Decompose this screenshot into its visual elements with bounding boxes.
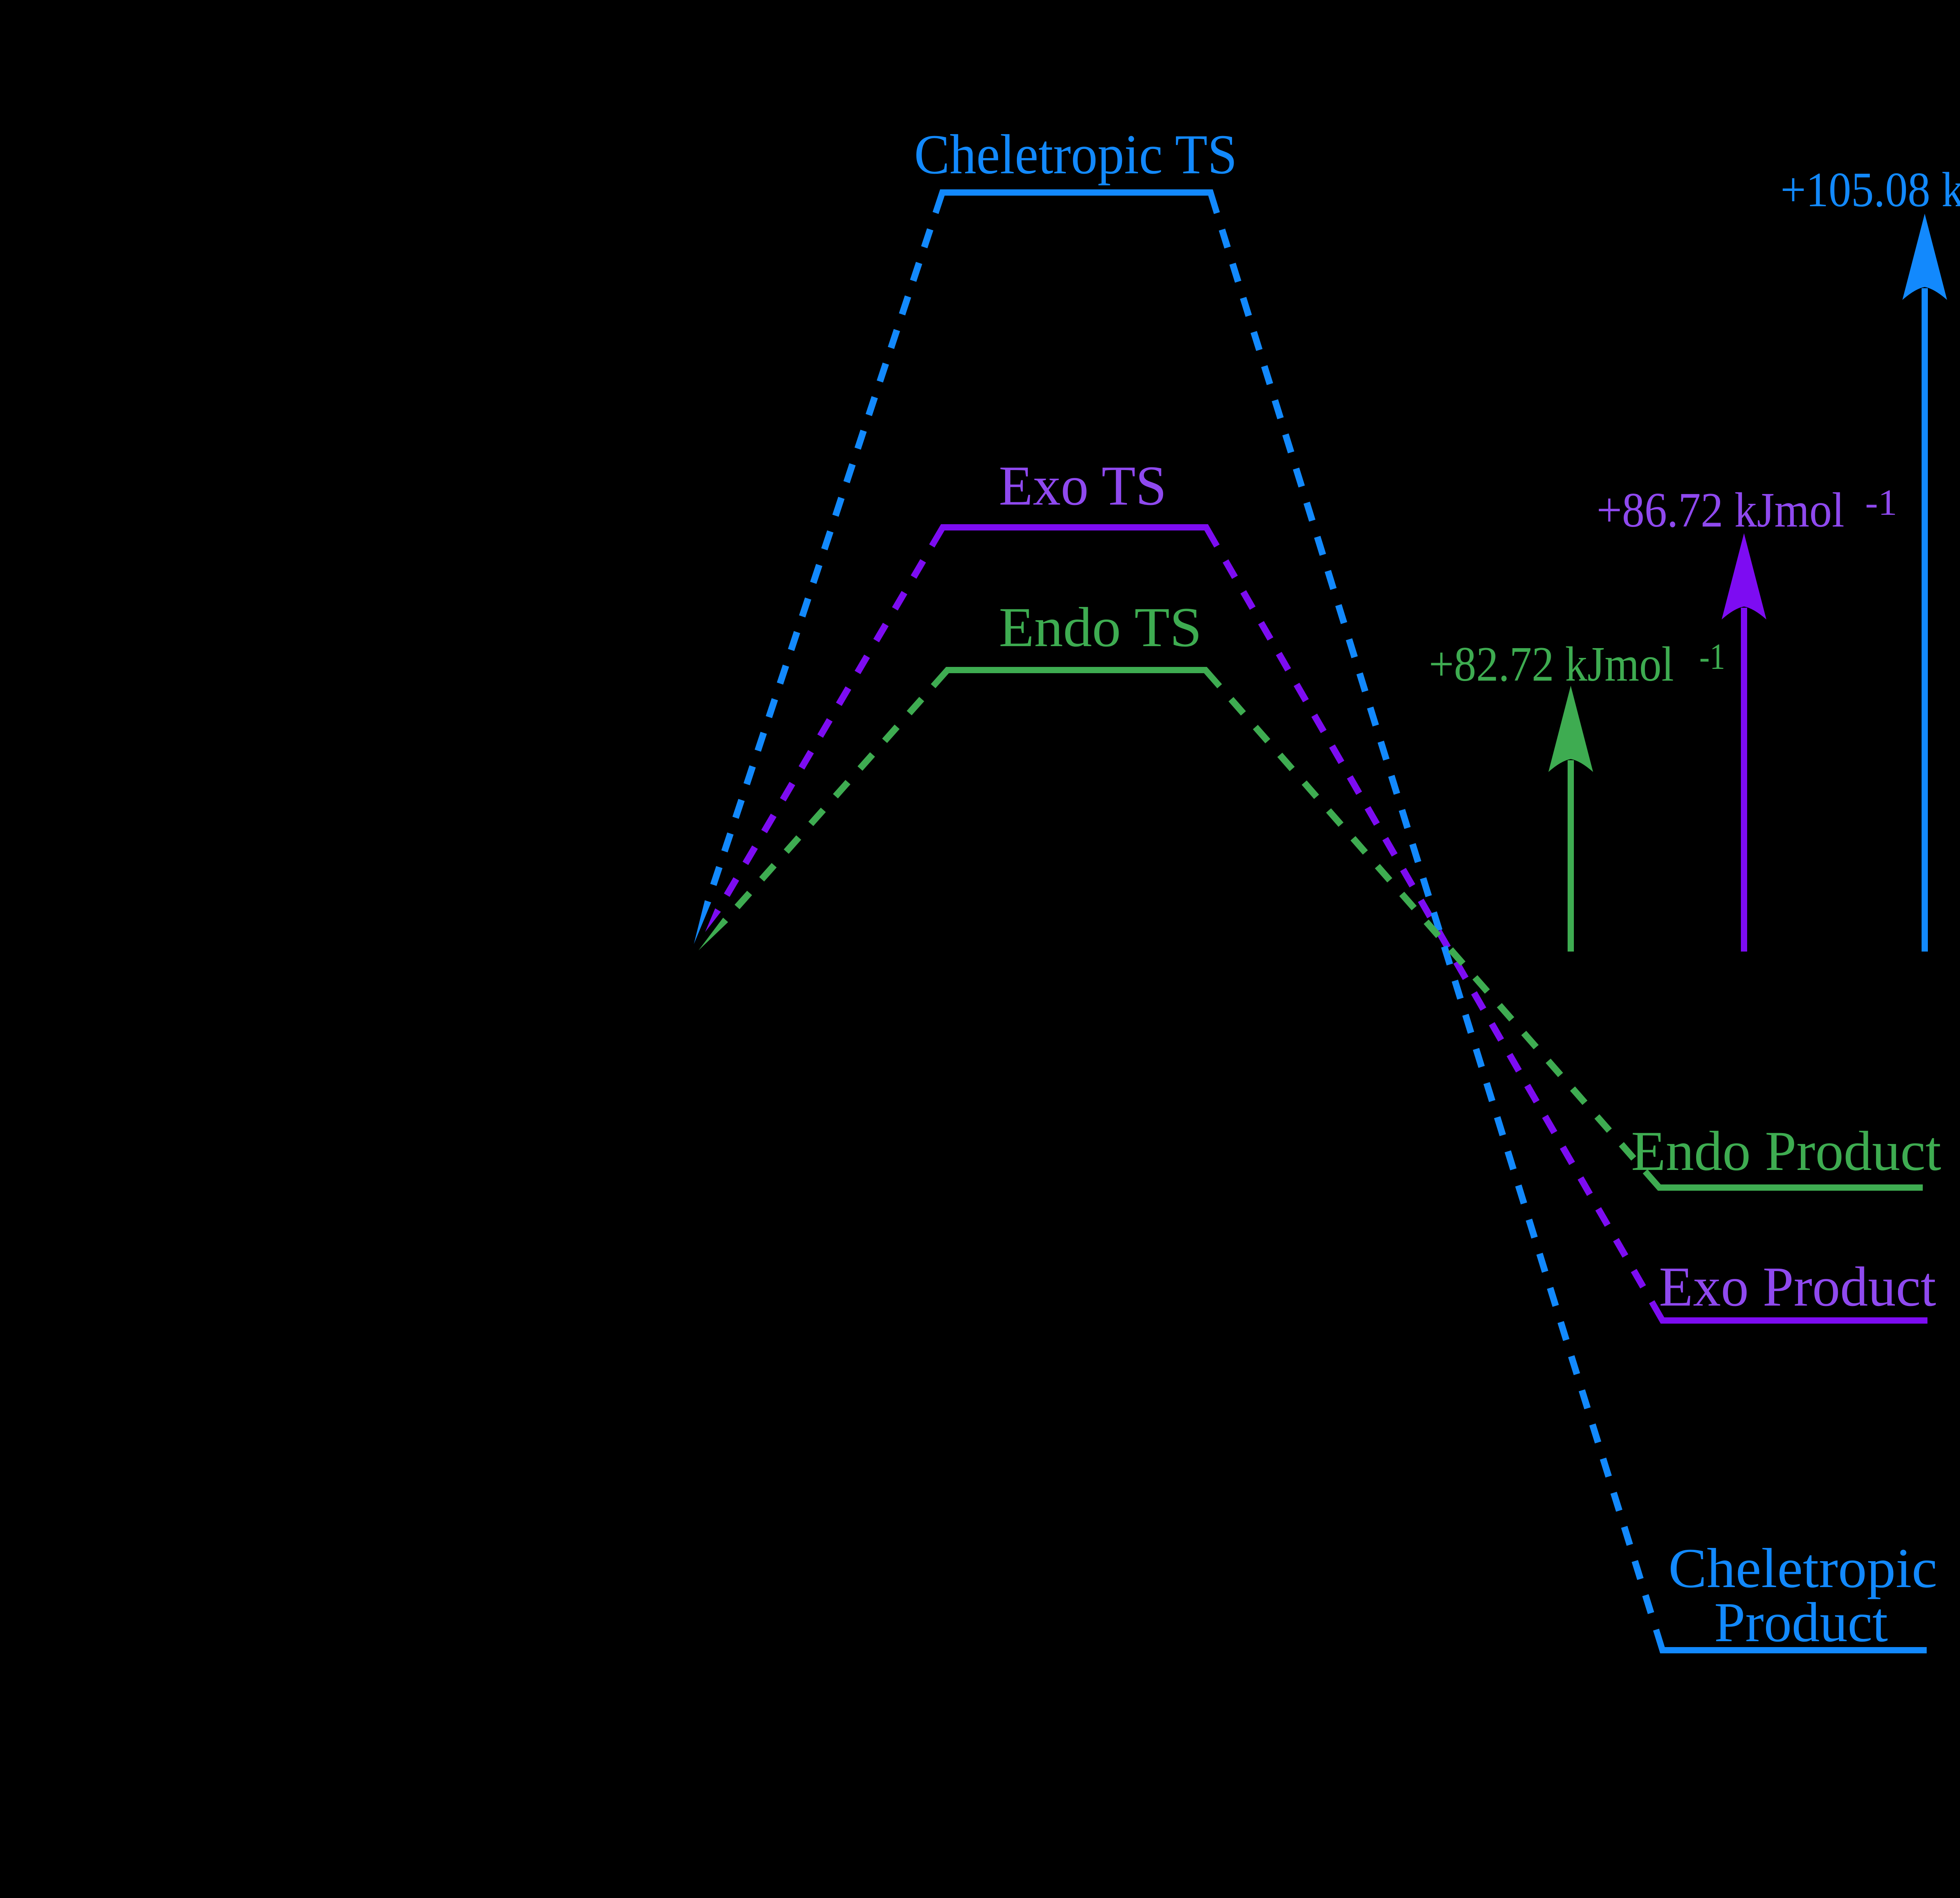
svg-text:-1: -1 bbox=[1699, 636, 1725, 677]
svg-text:Endo TS: Endo TS bbox=[999, 596, 1202, 659]
svg-text:Cheletropic TS: Cheletropic TS bbox=[914, 124, 1237, 186]
svg-text:+86.72 kJmol: +86.72 kJmol bbox=[1597, 483, 1844, 538]
svg-text:+82.72 kJmol: +82.72 kJmol bbox=[1429, 637, 1674, 692]
svg-text:Exo Product: Exo Product bbox=[1659, 1256, 1936, 1318]
svg-text:Exo TS: Exo TS bbox=[999, 455, 1167, 517]
svg-text:+105.08 kJmol: +105.08 kJmol bbox=[1780, 163, 1960, 217]
svg-text:-1: -1 bbox=[1865, 482, 1897, 523]
svg-text:Product: Product bbox=[1714, 1591, 1888, 1654]
svg-text:Cheletropic: Cheletropic bbox=[1668, 1537, 1937, 1600]
svg-text:Endo Product: Endo Product bbox=[1631, 1120, 1941, 1182]
